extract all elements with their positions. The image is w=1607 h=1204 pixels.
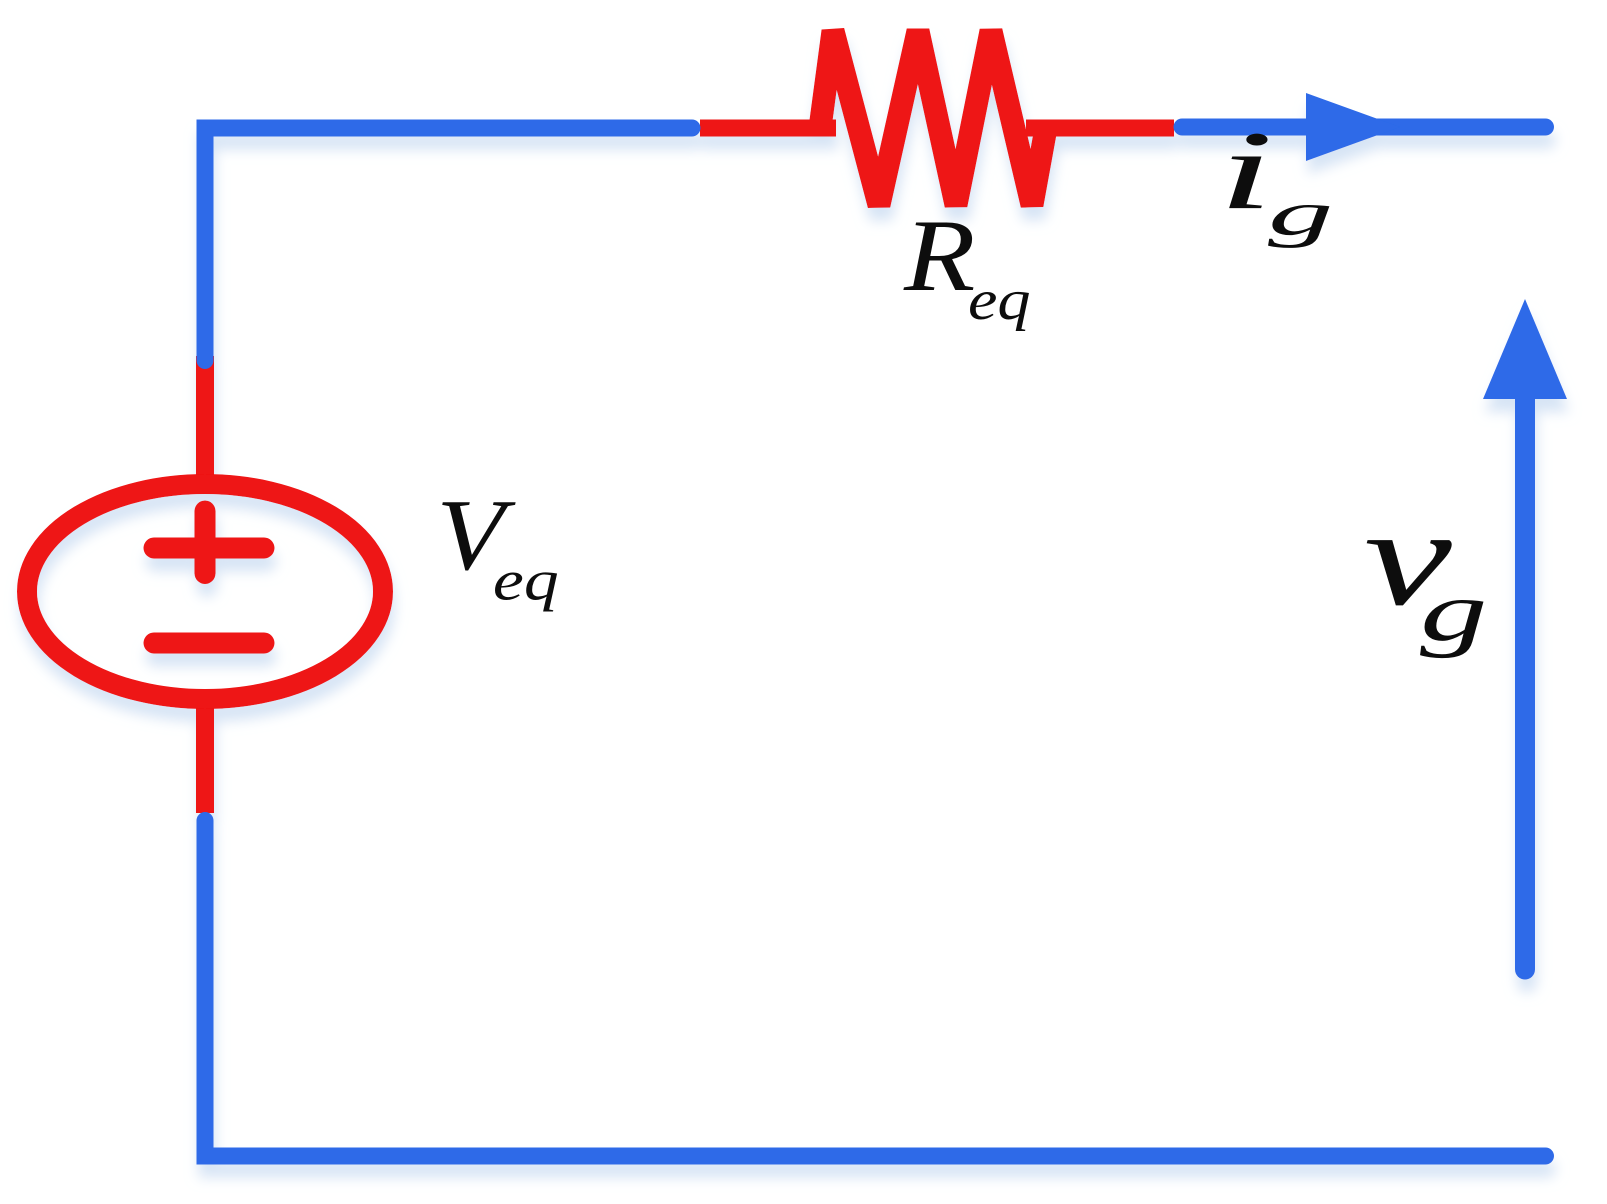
voltage source Veq ellipse	[27, 484, 383, 699]
svg-text:R: R	[903, 198, 975, 312]
wire: blue top-left (vertical from source up, then right to resistor)	[205, 128, 692, 361]
minus sign inside Veq	[154, 633, 264, 654]
plus sign inside Veq	[154, 511, 264, 574]
current arrow head ig	[1306, 93, 1400, 161]
wire: blue bottom loop (left vertical down and bottom horizontal)	[205, 821, 1546, 1157]
wire: red lead right of resistor (top net)	[1026, 120, 1174, 137]
svg-text:g: g	[1268, 179, 1333, 248]
wire: red vertical above source Veq	[196, 356, 214, 492]
wire: blue top-right from resistor to right end	[1182, 119, 1546, 136]
svg-text:eq: eq	[968, 269, 1031, 332]
wire: red lead left of resistor (top net)	[700, 120, 836, 137]
voltage arrow vg head	[1483, 299, 1567, 399]
resistor Req zigzag body	[820, 31, 1046, 205]
svg-text:g: g	[1420, 565, 1487, 659]
wire: red vertical below source Veq	[196, 697, 214, 813]
voltage arrow vg shaft	[1515, 395, 1535, 970]
svg-text:i: i	[1218, 108, 1274, 233]
svg-text:eq: eq	[493, 548, 559, 612]
